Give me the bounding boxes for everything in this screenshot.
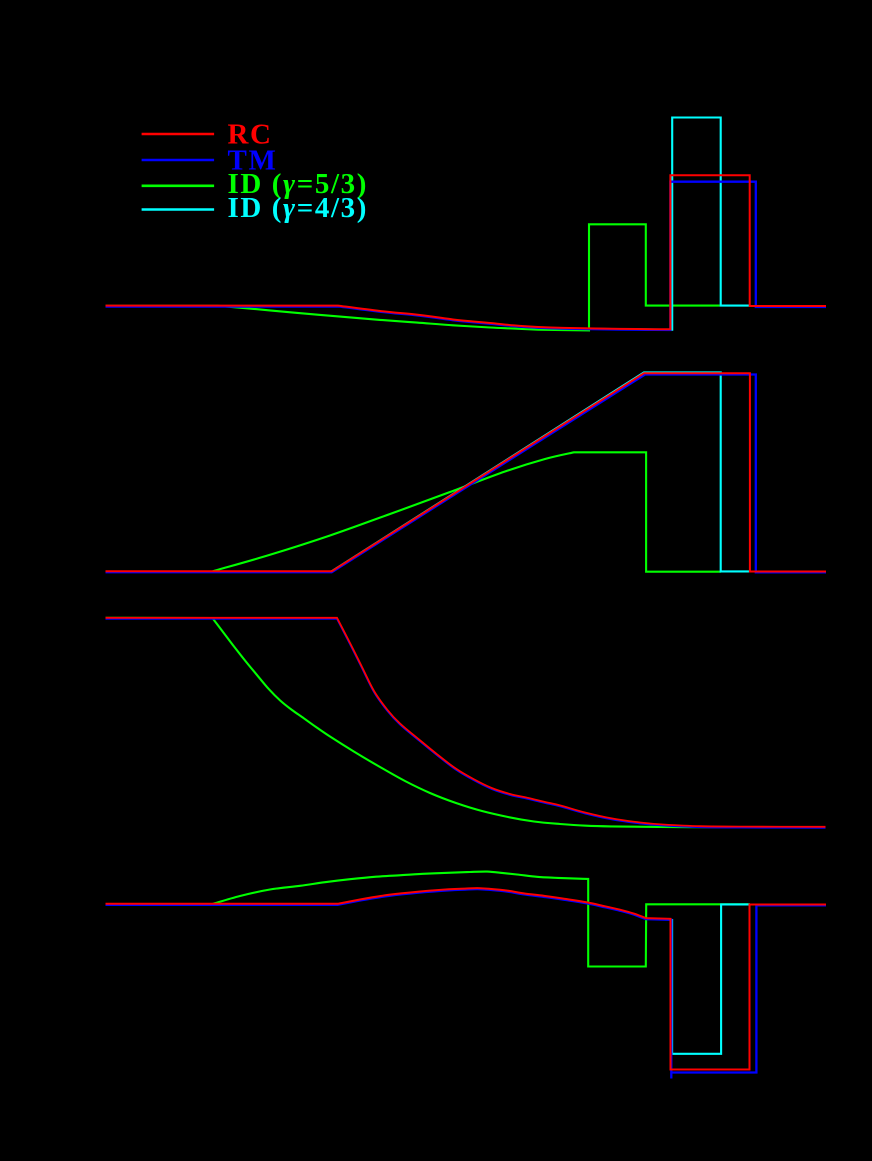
panel 1 curve ID gamma=5/3 (green) — [106, 224, 720, 330]
legend line TM — [142, 159, 215, 162]
panel 2 curve ID gamma=4/3 (cyan) — [332, 372, 750, 571]
panel 4 curve TM (blue) — [106, 889, 827, 1078]
panel 2 curve ID gamma=5/3 (green) — [213, 452, 721, 571]
panel 4 curve ID gamma=4/3 (cyan) — [672, 904, 750, 1053]
panel 1 curve TM (blue) — [106, 182, 827, 330]
panel 3 curve RC (red) — [106, 618, 826, 827]
legend line RC — [142, 133, 215, 136]
panel 2 curve TM (blue) — [106, 375, 827, 573]
panel 4 curve ID gamma=5/3 (green) — [106, 872, 751, 967]
panel 3 curve TM (blue) — [106, 619, 826, 828]
legend line ID gamma=4/3 — [142, 208, 215, 211]
panel 2 curve RC (red) — [106, 373, 827, 571]
panel 3 curve ID gamma=5/3 (green) — [106, 618, 826, 827]
panel 4 curve RC (red) — [106, 888, 827, 1069]
panel 1 curve RC (red) — [106, 175, 827, 329]
legend line ID gamma=5/3 — [142, 185, 215, 188]
svg-text:ID (γ=4/3): ID (γ=4/3) — [228, 192, 368, 224]
panel 1 curve ID gamma=4/3 (cyan) — [589, 118, 750, 330]
